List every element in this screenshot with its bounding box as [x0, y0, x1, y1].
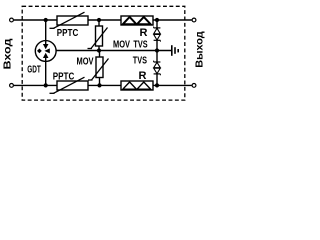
TVS diode pair D1 (top) — [154, 20, 161, 51]
junction node mid-TVS — [155, 48, 159, 52]
TVS diode pair D2 (bottom) — [154, 51, 161, 86]
junction node bottom-GDT — [44, 83, 48, 87]
wire bottom line — [14, 84, 192, 86]
junction node top-GDT — [44, 18, 48, 22]
junction node bottom-TVS — [155, 83, 159, 87]
wire top line — [14, 19, 192, 21]
PPTC fuse F1 (top) — [50, 12, 89, 28]
resistor R2 (bottom) — [121, 81, 153, 90]
GDT U1 — [35, 20, 56, 85]
junction node bottom-MOV2 — [97, 83, 101, 87]
svg-text:Вход: Вход — [2, 38, 14, 69]
svg-text:PPTC: PPTC — [57, 27, 79, 39]
PPTC fuse F2 (bottom) — [50, 77, 89, 93]
svg-text:Выход: Выход — [193, 31, 205, 68]
svg-text:PPTC: PPTC — [53, 71, 75, 83]
svg-text:R: R — [140, 27, 148, 39]
junction node top-TVS — [155, 18, 159, 22]
junction node top-MOV1 — [97, 18, 101, 22]
svg-text:TVS: TVS — [133, 39, 147, 50]
wire middle ground bus — [50, 50, 172, 52]
output terminal bottom-right — [192, 84, 196, 88]
svg-text:MOV: MOV — [77, 56, 94, 67]
input terminal bottom-left — [10, 84, 14, 88]
chassis ground — [172, 45, 178, 56]
varistor MOV2 (bottom) — [88, 51, 109, 85]
output terminal top-right — [192, 18, 196, 22]
input terminal top-left — [10, 18, 14, 22]
svg-text:GDT: GDT — [27, 65, 41, 76]
varistor MOV1 (top) — [88, 20, 108, 51]
svg-text:TVS: TVS — [133, 55, 147, 66]
svg-text:MOV: MOV — [113, 39, 130, 50]
junction node mid-MOV — [97, 48, 101, 52]
enclosure dashed border — [22, 6, 185, 100]
resistor R1 (top) — [121, 16, 153, 25]
svg-text:R: R — [139, 70, 147, 82]
